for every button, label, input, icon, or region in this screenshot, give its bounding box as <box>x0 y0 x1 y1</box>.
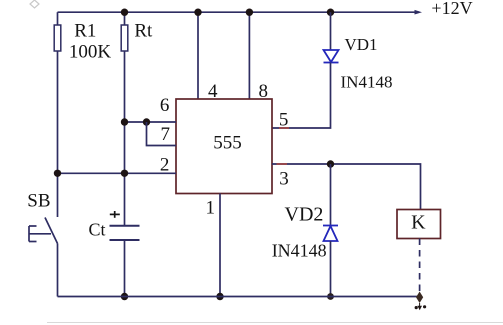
wire pin4 vertical <box>197 12 199 99</box>
power +12V arrow <box>415 10 423 15</box>
wire bottom rail <box>58 296 420 298</box>
svg-text:100K: 100K <box>69 42 112 63</box>
svg-text:+12V: +12V <box>431 0 472 18</box>
node junction top rail at pin8 <box>246 9 253 16</box>
svg-text:VD2: VD2 <box>285 204 324 226</box>
svg-text:7: 7 <box>161 124 171 145</box>
resistor Rt <box>121 25 128 51</box>
node junction Rt-pin2 <box>121 170 128 177</box>
wire Ct bottom vertical <box>124 240 126 297</box>
wire VD2 cathode vertical <box>330 164 332 226</box>
decorative faint bottom line <box>47 322 503 324</box>
wire pin7 branch <box>147 122 177 146</box>
relay K box <box>397 210 441 239</box>
switch SB movable arm <box>45 218 58 244</box>
svg-text:3: 3 <box>279 169 289 190</box>
decorative watermark diamond top <box>30 0 39 8</box>
svg-text:IN4148: IN4148 <box>272 241 327 261</box>
capacitor Ct plates <box>110 226 140 240</box>
node junction bottom rail at VD2 <box>327 293 334 300</box>
wire relay dashed linkage <box>419 239 421 294</box>
wire VD2 anode vertical <box>330 241 332 297</box>
wire VD1 anode vertical <box>330 12 332 50</box>
svg-text:VD1: VD1 <box>344 35 377 54</box>
svg-text:4: 4 <box>208 81 218 102</box>
node junction pin3-VD2 <box>327 160 334 167</box>
node junction top rail at Rt <box>121 9 128 16</box>
wire pin8 vertical <box>248 12 250 99</box>
node relay linkage specks <box>415 303 427 310</box>
wire Rt top vertical <box>124 12 126 25</box>
node junction pin6-pin7 branch <box>143 118 150 125</box>
wire VD1 cathode to pin5 <box>272 63 331 129</box>
wire top rail +12V <box>58 11 420 13</box>
node junction bottom rail at pin1 <box>216 293 223 300</box>
svg-text:R1: R1 <box>74 21 96 42</box>
wire pin5 red tick <box>279 127 289 129</box>
svg-text:6: 6 <box>160 95 170 116</box>
wire pin3 red tick <box>277 163 288 165</box>
node junction bottom rail at Ct <box>121 293 128 300</box>
svg-text:Ct: Ct <box>88 220 105 240</box>
svg-text:8: 8 <box>258 81 268 102</box>
wire R1 top vertical <box>57 12 59 25</box>
wire SB bottom vertical <box>57 244 59 297</box>
svg-text:K: K <box>411 212 426 234</box>
wire pin3 horizontal <box>272 164 421 209</box>
diode VD1 <box>324 50 339 63</box>
node junction rail-pin6 <box>121 118 128 125</box>
node relay linkage terminal diamond <box>416 292 423 304</box>
wire Rt bottom vertical <box>124 51 126 226</box>
svg-text:2: 2 <box>160 155 170 176</box>
svg-text:Rt: Rt <box>134 21 153 42</box>
svg-text:555: 555 <box>213 133 242 154</box>
switch SB fixed contact <box>29 226 51 242</box>
svg-text:IN4148: IN4148 <box>341 73 393 92</box>
wire pin6 horizontal <box>125 121 177 123</box>
node junction top rail at pin4 <box>194 9 201 16</box>
node junction top rail at VD1 <box>327 9 334 16</box>
capacitor Ct polarity plus <box>110 211 120 218</box>
svg-text:SB: SB <box>27 191 50 212</box>
wire pin1 vertical <box>219 194 221 297</box>
node junction R1-pin2 <box>54 170 61 177</box>
diode VD2 <box>323 226 338 242</box>
op-amp U1 555 box <box>176 99 272 194</box>
resistor R1 <box>54 25 61 51</box>
wire R1 bottom vertical <box>57 51 59 217</box>
wire pin2 horizontal <box>58 172 177 174</box>
svg-text:1: 1 <box>206 198 216 219</box>
